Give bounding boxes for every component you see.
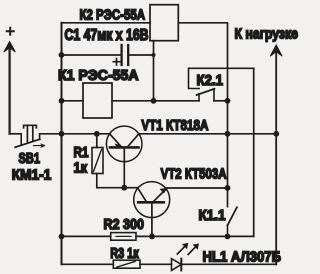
transistor VT1 KT818A (pnp)	[106, 126, 142, 188]
junction: VT1 base / R1 bottom / VT2 collector	[121, 185, 127, 191]
node plus: + supply terminal top-left	[4, 28, 15, 52]
junction: load line / VT1 collector wire	[273, 131, 279, 137]
junction: VT2 emitter / middle vertical line	[225, 185, 231, 191]
wire: K2 right lead, corner down	[178, 23, 227, 207]
wire: K1 left lead	[62, 100, 84, 102]
wire: VT2 emitter to right line	[166, 187, 228, 189]
svg-text:R3 1к: R3 1к	[110, 245, 139, 262]
svg-text:КМ1-1: КМ1-1	[12, 166, 52, 183]
junction: VT2 base / R2 wire	[149, 234, 155, 240]
svg-text:К2 РЭС-55А: К2 РЭС-55А	[80, 7, 146, 23]
svg-text:R2 300: R2 300	[104, 216, 145, 233]
junction: left rail / SB1 output wire	[59, 131, 65, 137]
LED HL1 AL307B	[172, 243, 277, 270]
resistor R3	[62, 260, 172, 268]
svg-text:К1.1: К1.1	[199, 207, 226, 224]
junction: K2 coil bottom line / K1 wire	[151, 98, 157, 104]
wire: left rail from + arrow down to SB1	[9, 47, 11, 134]
svg-text:К нагрузке: К нагрузке	[235, 25, 299, 42]
wire: K1 right lead to K2.1 contact	[112, 100, 199, 102]
svg-text:К2.1: К2.1	[197, 72, 224, 89]
svg-text:HL1 АЛ307Б: HL1 АЛ307Б	[203, 248, 282, 265]
resistor R2	[62, 233, 254, 241]
contact K1.1	[228, 207, 237, 236]
junction: K2.1 output / middle vertical line	[225, 98, 231, 104]
junction: left rail / C1 left plate	[59, 52, 65, 58]
junction: K2 coil bottom line / C1 right plate	[152, 53, 156, 57]
node: to load arrow	[270, 45, 282, 264]
svg-text:VT2 КТ503А: VT2 КТ503А	[161, 166, 227, 183]
svg-text:SB1: SB1	[19, 150, 41, 167]
svg-text:1к: 1к	[74, 160, 88, 177]
wire: VT1 collector to right	[139, 133, 276, 135]
pushbutton SB1	[15, 125, 44, 147]
transistor VT2 KT503A (npn)	[134, 182, 170, 237]
svg-text:VT1 КТ818А: VT1 КТ818А	[141, 117, 208, 134]
wire: VT1 base node to VT2 collector	[124, 187, 138, 189]
svg-text:С1 47мк х 16В: С1 47мк х 16В	[65, 27, 149, 44]
junction: R1 top / VT1 emitter wire	[94, 131, 100, 137]
junction: K1.1 bottom terminal	[225, 234, 231, 240]
wire: second rail x=61.5 from top wire down to bottom rail	[61, 23, 63, 264]
contact K2.1	[189, 68, 254, 101]
wire: top horizontal to K2 coil	[62, 22, 151, 24]
svg-text:К1 РЭС-55А: К1 РЭС-55А	[58, 67, 139, 84]
wire: SB1 left lead	[10, 133, 22, 135]
junction: left rail / K1 coil	[59, 98, 65, 104]
wire: K2 coil bottom down to K1 wire	[153, 41, 155, 101]
junction: VT1 collector / middle vertical line	[225, 131, 231, 137]
junction: left rail / R2 wire	[59, 234, 65, 240]
wire: K2.1 bracket right leg down to K1.1 bottom	[253, 68, 255, 236]
wire: SB1 right lead to VT1 base/emitter rail	[40, 133, 110, 135]
resistor R1	[92, 134, 124, 188]
capacitor C1	[62, 45, 154, 65]
relay coil K2	[150, 5, 178, 41]
relay coil K1	[83, 83, 112, 118]
